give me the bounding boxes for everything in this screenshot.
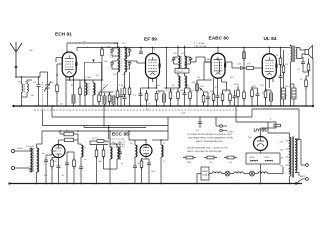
svg-text:EABC 80: EABC 80 — [209, 36, 230, 42]
svg-text:RETE: RETE — [300, 176, 306, 178]
svg-text:1M: 1M — [210, 91, 213, 93]
svg-text:L41 L42: L41 L42 — [26, 146, 35, 148]
svg-text:SALVO IN ASSENZA DI SE: SALVO IN ASSENZA DI SE — [196, 140, 223, 143]
svg-text:UY85: UY85 — [264, 157, 270, 159]
svg-text:4Ω: 4Ω — [186, 85, 189, 87]
svg-text:ECC 85: ECC 85 — [112, 132, 129, 138]
svg-text:UL 84: UL 84 — [264, 36, 277, 42]
svg-text:LAMP: LAMP — [202, 170, 208, 173]
svg-text:1M: 1M — [192, 82, 195, 84]
svg-text:300 Ω: 300 Ω — [17, 148, 23, 150]
svg-text:UL84: UL84 — [249, 157, 255, 159]
svg-text:VALORI MISURATI IN A. - CIRCUI: VALORI MISURATI IN A. - CIRCUITO H.F. — [187, 147, 228, 150]
svg-text:18 Ω: 18 Ω — [187, 162, 192, 164]
svg-text:LE TENSIONI RIPORTATE SI RIFER: LE TENSIONI RIPORTATE SI RIFERISCONO — [187, 133, 232, 136]
svg-text:MISURATE FRA IL FUNZIONAMENTO: MISURATE FRA IL FUNZIONAMENTO IN RE — [189, 136, 234, 139]
svg-text:M 47: M 47 — [92, 138, 98, 140]
svg-text:ECH 81: ECH 81 — [55, 32, 72, 38]
svg-text:M 1,22: M 1,22 — [177, 71, 184, 73]
svg-text:0,5M: 0,5M — [205, 59, 210, 61]
svg-text:7,87 10,7Mc: 7,87 10,7Mc — [194, 46, 208, 48]
svg-text:L 1,2M: L 1,2M — [84, 77, 91, 79]
svg-text:50+50: 50+50 — [286, 86, 293, 88]
svg-text:SALVO INDICAZIONI SPECIFICHE: SALVO INDICAZIONI SPECIFICHE — [187, 150, 222, 153]
svg-text:SCALA: SCALA — [202, 174, 210, 177]
svg-text:7 Ω: 7 Ω — [209, 162, 213, 164]
svg-text:EF 89: EF 89 — [144, 37, 157, 43]
svg-text:7 Ω: 7 Ω — [229, 162, 233, 164]
svg-text:7,7 470kc: 7,7 470kc — [194, 43, 206, 45]
svg-text:UY 85: UY 85 — [254, 128, 268, 134]
